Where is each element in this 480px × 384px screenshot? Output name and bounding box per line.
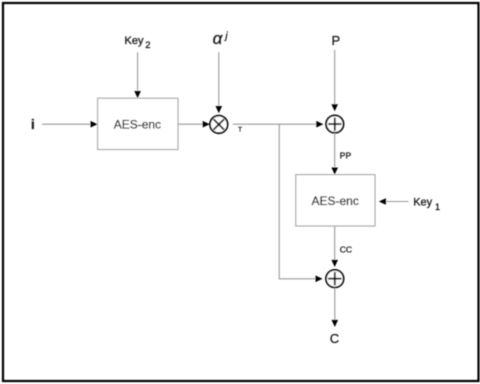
svg-text:P: P: [332, 33, 341, 48]
arrowhead toward C: [332, 320, 339, 327]
label Key2: [125, 35, 151, 51]
wire Key2 to AES-enc box1: [137, 52, 139, 92]
svg-text:T: T: [238, 127, 242, 134]
arrowhead into box2 right: [379, 198, 386, 205]
label Key1: [413, 196, 440, 212]
xor2 circle: [326, 270, 344, 288]
branch wire right to xor2: [279, 278, 316, 280]
svg-text:α: α: [213, 29, 224, 48]
wire Key1 to box2: [385, 201, 408, 203]
wire xor1 down to box2: [334, 133, 336, 169]
wire i to box1: [42, 123, 91, 125]
wire alpha to multiplier: [218, 52, 220, 106]
svg-text:C: C: [330, 331, 339, 346]
svg-text:Key: Key: [413, 196, 432, 208]
wire xor2 down to C: [334, 288, 336, 321]
svg-text:AES-enc: AES-enc: [114, 118, 161, 132]
arrowhead into box2 top: [331, 168, 338, 175]
svg-text:PP: PP: [340, 151, 352, 161]
box AES-enc 1: [98, 98, 178, 149]
svg-text:Key: Key: [125, 35, 144, 47]
svg-text:CC: CC: [340, 244, 352, 254]
arrowhead into xor2 top: [331, 260, 338, 267]
svg-text:2: 2: [145, 40, 150, 51]
arrowhead into xor2 left: [316, 276, 323, 283]
xor1 circle: [326, 115, 343, 132]
wire multiplier to xor1: [233, 123, 317, 125]
arrowhead into box1 left: [91, 121, 98, 128]
arrowhead into multiplier left: [203, 121, 210, 128]
branch wire down from T line: [278, 124, 280, 280]
label alpha^j: [213, 29, 229, 48]
wire box2 down to xor2: [334, 226, 336, 261]
arrowhead into box1 top: [134, 91, 141, 98]
arrowhead into xor1 top: [331, 104, 338, 111]
svg-text:i: i: [31, 117, 35, 132]
svg-text:AES-enc: AES-enc: [312, 194, 359, 208]
multiplier circle (mod mult): [210, 116, 228, 134]
arrowhead into xor1 left: [316, 121, 323, 128]
wire P to xor1: [334, 50, 336, 105]
arrowhead into multiplier top: [216, 106, 223, 113]
box AES-enc 2: [296, 175, 375, 226]
svg-text:1: 1: [435, 202, 440, 212]
wire box1 to multiplier: [178, 123, 204, 125]
